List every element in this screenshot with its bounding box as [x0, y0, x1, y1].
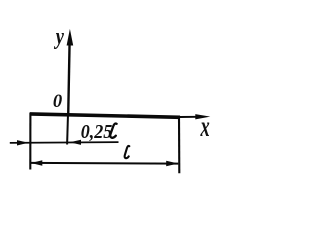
- svg-text:0,25: 0,25: [81, 121, 113, 143]
- svg-text:y: y: [53, 23, 64, 50]
- svg-text:0: 0: [53, 91, 63, 112]
- svg-text:x: x: [200, 111, 210, 143]
